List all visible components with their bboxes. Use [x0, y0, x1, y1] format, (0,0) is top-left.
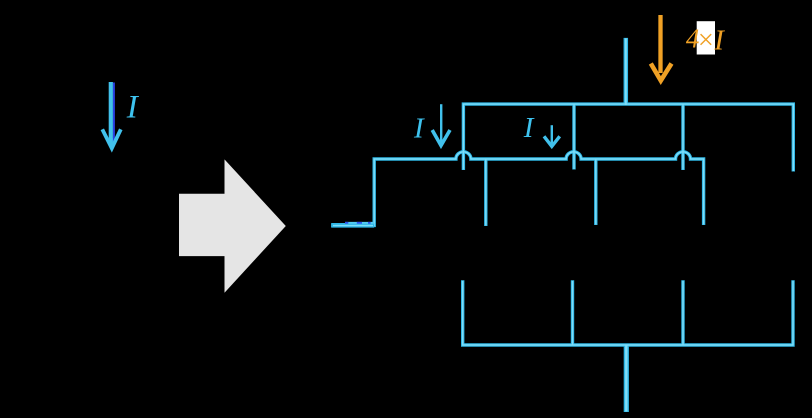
svg-text:I: I — [713, 24, 725, 56]
svg-text:I: I — [413, 112, 425, 144]
svg-text:I: I — [126, 89, 140, 125]
svg-text:I: I — [523, 112, 535, 144]
svg-text:×: × — [696, 25, 715, 56]
